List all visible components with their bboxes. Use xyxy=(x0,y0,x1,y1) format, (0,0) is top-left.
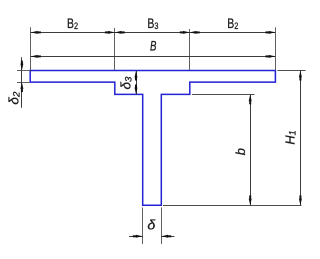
svg-text:δ: δ xyxy=(147,217,156,233)
label delta xyxy=(147,217,156,233)
extension line right step (B3/B2 boundary) xyxy=(189,29,191,70)
delta2 arrow upper xyxy=(20,61,23,71)
H1 dimension line xyxy=(300,71,302,206)
arrow pair at left step xyxy=(105,31,125,34)
b dimension line xyxy=(250,95,252,206)
label delta2 rotated xyxy=(7,91,23,105)
label B2 right xyxy=(227,16,238,32)
svg-text:δ2: δ2 xyxy=(7,91,23,105)
delta bottom right extension line xyxy=(161,208,163,245)
b arrow bottom xyxy=(249,195,252,205)
svg-text:H1: H1 xyxy=(282,130,297,144)
delta3 dimension line xyxy=(136,71,138,94)
delta2 extension line top xyxy=(17,70,30,72)
delta dimension line right part xyxy=(161,236,174,238)
label B3 xyxy=(147,16,158,32)
dimension line B2 B3 B2 xyxy=(31,32,276,34)
b top extension line xyxy=(192,94,255,96)
label delta3 rotated xyxy=(119,76,135,90)
arrow B right end xyxy=(266,55,276,58)
dimension line B xyxy=(31,56,276,58)
arrow pair at right step xyxy=(180,31,200,34)
delta2 arrow lower xyxy=(20,82,23,92)
delta3 arrow upper xyxy=(135,71,138,81)
svg-text:b: b xyxy=(233,148,248,155)
svg-text:B2: B2 xyxy=(67,16,78,32)
H1 top extension line xyxy=(278,70,306,72)
label H1 rotated xyxy=(282,130,297,144)
label B italic xyxy=(150,39,157,54)
delta bottom left extension line xyxy=(142,208,144,245)
delta2 extension line bottom xyxy=(17,82,30,84)
extension line left step (B2/B3 boundary) xyxy=(114,28,116,70)
T-beam profile outline xyxy=(30,71,275,206)
extension line right flange edge (B dims) xyxy=(275,27,277,70)
H1 arrow bottom xyxy=(299,195,302,205)
delta3 arrow lower xyxy=(135,85,138,95)
svg-text:B2: B2 xyxy=(227,16,238,32)
delta arrow right xyxy=(161,235,171,238)
arrow B2 right end xyxy=(266,31,276,34)
label b rotated xyxy=(233,148,248,155)
label B2 left xyxy=(67,16,78,32)
arrow B2 left end xyxy=(31,31,41,34)
svg-text:B: B xyxy=(150,39,157,54)
arrow B left end xyxy=(31,55,41,58)
b arrow top xyxy=(249,94,252,104)
delta arrow left xyxy=(133,235,143,238)
extension line left flange edge (B dims) xyxy=(30,27,32,70)
svg-text:δ3: δ3 xyxy=(119,76,135,90)
delta2 dimension line xyxy=(21,57,23,107)
svg-text:B3: B3 xyxy=(147,16,158,32)
H1 arrow top xyxy=(299,71,302,81)
bottom extension line (b and H1) xyxy=(163,205,302,207)
delta dimension line left part xyxy=(129,236,143,238)
